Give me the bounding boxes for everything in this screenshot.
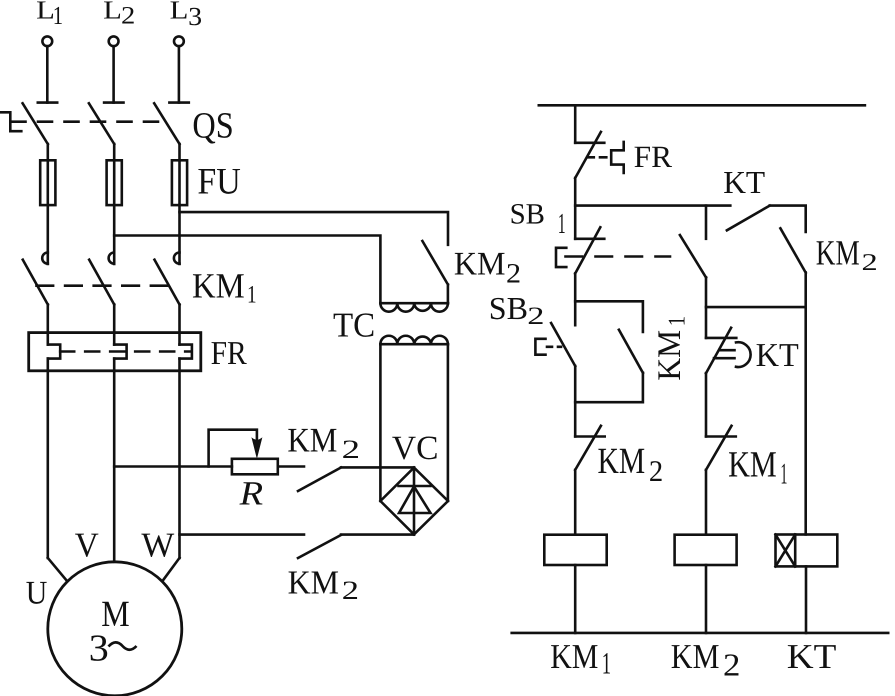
svg-text:KT: KT [756, 337, 799, 374]
svg-text:FR: FR [211, 335, 248, 372]
svg-text:KM: KM [728, 445, 777, 486]
svg-text:KT: KT [787, 637, 837, 676]
svg-text:1: 1 [558, 208, 566, 240]
svg-text:KM: KM [288, 564, 339, 601]
svg-text:L: L [170, 0, 189, 24]
svg-text:L: L [103, 0, 122, 24]
svg-text:FU: FU [197, 162, 240, 203]
svg-text:2: 2 [723, 647, 740, 683]
svg-text:V: V [75, 526, 99, 565]
svg-text:U: U [26, 575, 48, 611]
svg-text:2: 2 [649, 455, 663, 488]
svg-text:KM: KM [598, 441, 646, 482]
svg-text:1: 1 [780, 458, 787, 491]
svg-text:KM: KM [287, 421, 337, 459]
svg-text:KM: KM [192, 266, 245, 306]
svg-text:SB: SB [510, 198, 545, 230]
svg-text:2: 2 [121, 3, 135, 30]
svg-text:VC: VC [392, 430, 439, 467]
svg-text:KM: KM [652, 330, 688, 381]
svg-text:KT: KT [723, 164, 765, 200]
svg-text:1: 1 [665, 316, 691, 326]
svg-text:1: 1 [602, 646, 611, 681]
svg-text:R: R [238, 475, 263, 512]
svg-text:KM: KM [454, 247, 506, 283]
svg-text:2: 2 [527, 303, 544, 330]
svg-text:KM: KM [550, 637, 598, 676]
svg-text:QS: QS [192, 106, 233, 147]
svg-text:3: 3 [188, 2, 202, 31]
svg-text:1: 1 [247, 282, 257, 309]
svg-text:W: W [141, 526, 174, 565]
svg-text:TC: TC [333, 305, 375, 344]
svg-text:KM: KM [816, 233, 860, 273]
svg-text:KM: KM [671, 637, 720, 676]
svg-text:2: 2 [342, 575, 359, 605]
svg-text:2: 2 [342, 434, 360, 464]
svg-text:2: 2 [506, 259, 521, 290]
svg-text:1: 1 [53, 1, 63, 30]
svg-text:FR: FR [634, 139, 673, 174]
svg-text:3: 3 [89, 627, 109, 669]
svg-text:SB: SB [489, 290, 528, 326]
svg-text:2: 2 [862, 250, 878, 276]
